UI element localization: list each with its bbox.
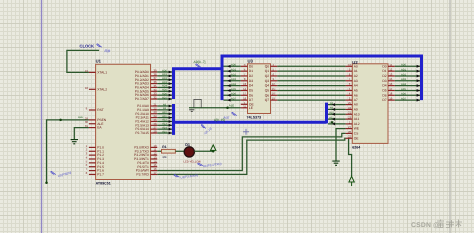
svg-text:23: 23 — [348, 116, 352, 120]
U1 right pins — [151, 71, 158, 73]
svg-text:D0: D0 — [249, 64, 253, 68]
IC U3 74LS373 — [248, 64, 271, 114]
svg-text:AD4: AD4 — [162, 85, 168, 88]
svg-text:P1.7: P1.7 — [97, 172, 104, 176]
wire P3.6 to U2 CS — [157, 133, 345, 170]
svg-text:U3: U3 — [248, 59, 254, 64]
svg-text:A3: A3 — [354, 79, 358, 83]
svg-text:D3: D3 — [382, 79, 386, 83]
svg-text:A11: A11 — [329, 116, 334, 119]
svg-text:A10: A10 — [329, 112, 334, 115]
svg-text:D4: D4 — [249, 84, 253, 88]
svg-text:A13: A13 — [162, 123, 167, 126]
script near CLOCK — [97, 44, 102, 47]
svg-text:Q5: Q5 — [265, 89, 270, 93]
svg-text:AD7: AD7 — [231, 97, 237, 100]
svg-text:AD2: AD2 — [162, 77, 168, 80]
wire U3 Q0-Q7 to U2 A0-A7 — [277, 65, 345, 67]
svg-text:ALE: ALE — [78, 116, 83, 119]
svg-text:U1: U1 — [96, 59, 102, 64]
node P0 wires to AD bus — [157, 71, 172, 73]
svg-text:A5: A5 — [354, 89, 358, 93]
wire R1 to D1 — [175, 150, 184, 152]
IC U2 6264 — [352, 64, 388, 144]
svg-text:D0: D0 — [382, 64, 386, 68]
svg-text:P0.7/AD7: P0.7/AD7 — [135, 97, 149, 101]
svg-text:11: 11 — [389, 63, 392, 67]
svg-text:D1: D1 — [382, 69, 386, 73]
svg-text:RST: RST — [97, 108, 104, 112]
svg-text:24: 24 — [348, 106, 352, 110]
svg-text:A8: A8 — [330, 102, 334, 105]
svg-text:D3: D3 — [249, 79, 253, 83]
wire PSEN down-left — [47, 120, 89, 183]
svg-text:12: 12 — [272, 82, 276, 86]
svg-text:AT89C51: AT89C51 — [96, 181, 111, 185]
node U2 D0-D7 to AD bus — [395, 65, 420, 67]
svg-text:A4: A4 — [354, 84, 358, 88]
node U2 A8-A12 from A bus — [328, 104, 346, 106]
svg-text:AD[0..7]: AD[0..7] — [194, 60, 206, 64]
svg-text:CSDN @: CSDN @ — [411, 222, 440, 229]
bus AD vertical at U1 — [174, 69, 223, 99]
svg-text:Q0: Q0 — [265, 64, 270, 68]
svg-text:A15: A15 — [162, 130, 167, 133]
svg-text:D1: D1 — [249, 69, 253, 73]
ground G2 (U2 WE) — [332, 161, 339, 165]
power arrow VCC (U2) — [349, 176, 354, 182]
wire EA to ground — [74, 128, 89, 140]
svg-text:AD2: AD2 — [231, 73, 237, 76]
svg-text:A10: A10 — [162, 111, 167, 114]
svg-text:WE: WE — [354, 127, 360, 131]
script A bus — [201, 124, 207, 128]
svg-text:11: 11 — [243, 104, 246, 108]
svg-text:21: 21 — [348, 111, 352, 115]
svg-text:14: 14 — [243, 87, 247, 91]
major grid line purple — [41, 0, 43, 233]
script pen AD bus — [196, 64, 201, 67]
junction on A bus — [331, 121, 333, 123]
svg-text:AD3: AD3 — [401, 78, 407, 81]
wire D1 to power — [194, 150, 213, 152]
svg-text:18: 18 — [85, 86, 89, 90]
svg-text:D2: D2 — [249, 74, 253, 78]
svg-text:AD1: AD1 — [231, 68, 237, 71]
svg-text:AD3: AD3 — [162, 81, 168, 84]
svg-text:Q7: Q7 — [265, 98, 270, 102]
svg-text:A6: A6 — [354, 93, 358, 97]
svg-text:D4: D4 — [382, 84, 386, 88]
svg-text:D1: D1 — [185, 143, 190, 147]
svg-text:74LS373: 74LS373 — [247, 116, 262, 120]
svg-text:AD5: AD5 — [162, 89, 168, 92]
svg-text:Q3: Q3 — [265, 79, 270, 83]
svg-text:16: 16 — [389, 82, 393, 86]
svg-text:A12: A12 — [162, 119, 167, 122]
svg-text:AD0: AD0 — [401, 64, 407, 67]
svg-text:AD6: AD6 — [162, 92, 168, 95]
node U3 D inputs from AD bus — [224, 65, 241, 67]
svg-text:18: 18 — [389, 92, 393, 96]
junction at power — [212, 150, 215, 153]
script U1(P3.7/RD) — [174, 174, 180, 178]
svg-text:AD4: AD4 — [401, 83, 407, 86]
bus A8-A15 — [172, 104, 175, 135]
svg-text:13: 13 — [389, 72, 393, 76]
svg-text:28: 28 — [153, 129, 157, 133]
svg-text:25: 25 — [348, 101, 352, 105]
node P2 wires to A bus — [157, 105, 172, 107]
wire CLOCK to XTAL1 — [67, 50, 99, 72]
svg-text:22: 22 — [348, 135, 352, 139]
svg-text:A8: A8 — [163, 103, 167, 106]
svg-text:AD5: AD5 — [231, 88, 237, 91]
svg-text:A2: A2 — [354, 74, 358, 78]
svg-text:R1: R1 — [162, 145, 166, 149]
svg-text:A7: A7 — [354, 98, 358, 102]
svg-text:CLOCK: CLOCK — [80, 44, 95, 49]
svg-text:D5: D5 — [382, 89, 386, 93]
svg-text:27: 27 — [348, 125, 352, 129]
svg-text:AD3: AD3 — [231, 78, 237, 81]
power arrow VCC (LED) — [212, 149, 214, 152]
svg-text:XTAL2: XTAL2 — [97, 87, 107, 91]
wire ALE/pulse to U3 LE — [189, 107, 241, 109]
pulse waveform icon — [194, 99, 201, 107]
major grid line grey — [449, 0, 451, 233]
junction ALE wire — [226, 107, 229, 110]
resistor R1 — [162, 149, 176, 153]
svg-text:AD0: AD0 — [231, 64, 237, 67]
svg-text:32: 32 — [153, 95, 157, 99]
bus AD vertical left of U3 + top horizontal — [222, 56, 422, 100]
svg-text:XTAL1: XTAL1 — [97, 70, 107, 74]
svg-text:Q4: Q4 — [265, 84, 270, 88]
svg-text:OE: OE — [354, 136, 360, 140]
U1 left pins — [89, 71, 96, 73]
svg-text:P3.7/RD: P3.7/RD — [136, 172, 149, 176]
wire P3.7 to U2 OE — [157, 138, 345, 174]
svg-text:A12: A12 — [354, 122, 360, 126]
U2 pins — [346, 65, 353, 67]
ground G1 (EA) — [71, 140, 78, 144]
svg-text:16: 16 — [272, 92, 276, 96]
pulse generator ground tick — [189, 110, 194, 112]
svg-text:ALE: ALE — [229, 104, 235, 108]
svg-text:17: 17 — [389, 87, 393, 91]
svg-text:15: 15 — [272, 87, 276, 91]
svg-text:AD0: AD0 — [162, 69, 168, 72]
origin marker — [243, 129, 249, 135]
svg-text:A[8..15]: A[8..15] — [214, 118, 225, 122]
svg-text:AD7: AD7 — [401, 97, 407, 100]
svg-text:12: 12 — [389, 68, 393, 72]
svg-text:31: 31 — [85, 124, 89, 128]
svg-text:AD6: AD6 — [231, 93, 237, 96]
svg-text:A0: A0 — [354, 64, 358, 68]
svg-text:A8: A8 — [354, 103, 358, 107]
svg-text:D7: D7 — [382, 98, 386, 102]
svg-text:D6: D6 — [382, 93, 386, 97]
wire P3.1 to R1 — [157, 150, 161, 152]
IC U1 AT89C51 — [96, 64, 151, 179]
svg-text:19: 19 — [389, 97, 393, 101]
svg-text:20: 20 — [348, 130, 352, 134]
U3 pins — [241, 65, 248, 67]
svg-text:AD7: AD7 — [162, 96, 168, 99]
svg-text:A9: A9 — [354, 107, 358, 111]
svg-text:Q2: Q2 — [265, 74, 270, 78]
svg-text:6264: 6264 — [352, 146, 360, 150]
svg-text:D2: D2 — [382, 74, 386, 78]
svg-text:A9: A9 — [330, 107, 334, 110]
svg-text:17: 17 — [153, 171, 157, 175]
node end dot PSEN — [45, 182, 48, 185]
svg-text:AD1: AD1 — [162, 73, 168, 76]
svg-text:AD4: AD4 — [231, 83, 237, 86]
svg-text:A9: A9 — [163, 107, 167, 110]
svg-text:A1: A1 — [354, 69, 358, 73]
wire U2 to power — [349, 138, 352, 176]
svg-text:AD5: AD5 — [401, 88, 407, 91]
svg-text:A10: A10 — [354, 112, 360, 116]
svg-text:AD6: AD6 — [401, 93, 407, 96]
svg-text:19: 19 — [272, 97, 276, 101]
svg-text:A11: A11 — [162, 115, 167, 118]
svg-text:D5: D5 — [249, 89, 253, 93]
svg-text:A14: A14 — [162, 126, 167, 129]
svg-text:AD1: AD1 — [401, 68, 407, 71]
svg-text:13: 13 — [243, 82, 247, 86]
svg-text:A11: A11 — [354, 117, 360, 121]
script U1(P3.6/WR) — [197, 162, 203, 166]
svg-text:15: 15 — [389, 77, 393, 81]
svg-text:10k: 10k — [162, 156, 167, 159]
svg-text:P2.7/A15: P2.7/A15 — [135, 131, 149, 135]
svg-text:AD2: AD2 — [401, 73, 407, 76]
svg-text:CS: CS — [354, 131, 359, 135]
svg-text:19: 19 — [85, 69, 89, 73]
wire U2 WE to ground — [336, 129, 346, 161]
svg-text:17: 17 — [243, 92, 247, 96]
svg-text:风脉: 风脉 — [104, 49, 111, 53]
svg-text:Q6: Q6 — [265, 93, 270, 97]
svg-text:10: 10 — [348, 63, 352, 67]
LED D1 — [184, 147, 194, 157]
junction on PSEN wire — [59, 119, 62, 122]
svg-text:Q1: Q1 — [265, 69, 270, 73]
script U1(PSEN) — [51, 171, 56, 174]
svg-text:D6: D6 — [249, 93, 253, 97]
